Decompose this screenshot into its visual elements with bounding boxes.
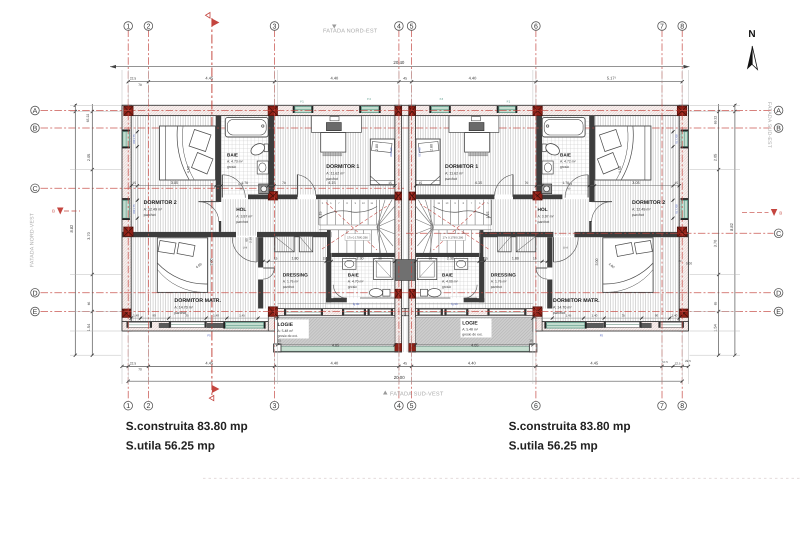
svg-text:4.15: 4.15 bbox=[475, 181, 482, 185]
svg-text:1.15: 1.15 bbox=[319, 212, 323, 219]
loggia floor hatch right unit bbox=[416, 318, 533, 348]
svg-text:DORMITOR 1: DORMITOR 1 bbox=[326, 164, 359, 170]
svg-text:DRESSING: DRESSING bbox=[283, 272, 308, 278]
loggia bottom edge left unit bbox=[275, 351, 402, 353]
room label logie right bbox=[461, 319, 492, 338]
svg-text:LOGIE: LOGIE bbox=[462, 321, 478, 327]
svg-text:1.80: 1.80 bbox=[292, 257, 299, 261]
svg-text:1.40: 1.40 bbox=[671, 313, 677, 317]
svg-text:parchet: parchet bbox=[445, 177, 457, 181]
svg-text:15: 15 bbox=[278, 339, 282, 343]
wall: baie jos south wall left bbox=[326, 298, 347, 302]
window F1 dormitor1 top right bbox=[499, 107, 516, 113]
svg-text:BAIE: BAIE bbox=[348, 272, 359, 277]
wall: party wall west band bbox=[395, 105, 402, 352]
floor: vestibul loggia left unit bbox=[326, 302, 395, 308]
svg-text:A: 1.76 m²: A: 1.76 m² bbox=[283, 279, 300, 283]
svg-text:E: E bbox=[33, 309, 38, 316]
svg-text:90: 90 bbox=[429, 257, 433, 261]
svg-text:DORMITOR 2: DORMITOR 2 bbox=[144, 200, 177, 206]
svg-text:65: 65 bbox=[714, 302, 718, 306]
room label logie left bbox=[278, 320, 309, 339]
svg-text:15: 15 bbox=[529, 339, 533, 343]
svg-text:22.5: 22.5 bbox=[685, 359, 691, 363]
svg-text:A: 14.70 m²: A: 14.70 m² bbox=[553, 305, 572, 309]
svg-text:FATADA NORD-VEST: FATADA NORD-VEST bbox=[30, 212, 36, 267]
column party-corridor left bbox=[395, 192, 402, 200]
door dressing left bbox=[263, 267, 274, 269]
column g3-E left bbox=[268, 307, 277, 317]
svg-text:gresie: gresie bbox=[348, 285, 357, 289]
svg-text:57.5: 57.5 bbox=[662, 360, 668, 364]
svg-text:3.00: 3.00 bbox=[595, 259, 599, 266]
bed dormitor matrimonial right bbox=[603, 238, 653, 293]
bed dormitor 2 left bbox=[160, 126, 216, 180]
svg-text:90: 90 bbox=[378, 257, 382, 261]
svg-text:7: 7 bbox=[660, 24, 664, 31]
svg-text:22: 22 bbox=[678, 259, 682, 263]
svg-text:U-4: U-4 bbox=[243, 246, 248, 250]
stair break line right bbox=[433, 207, 491, 219]
svg-text:gresie de ext.: gresie de ext. bbox=[278, 334, 298, 338]
svg-text:S.utila 56.25 mp: S.utila 56.25 mp bbox=[126, 439, 215, 453]
grid bubble 4 bbox=[395, 22, 404, 31]
svg-text:20.40: 20.40 bbox=[393, 60, 405, 65]
stair lower flight treads right bbox=[439, 230, 480, 253]
bed dormitor matrimonial left bbox=[157, 238, 207, 293]
svg-text:F4: F4 bbox=[367, 97, 371, 101]
stair winder fan right bbox=[425, 200, 433, 227]
loggia glazing sill strip left unit bbox=[278, 347, 395, 352]
loggia glazing sill strip right unit bbox=[416, 347, 533, 352]
stair stringer right left bbox=[379, 200, 381, 253]
window dormitor2 side lower left bbox=[123, 200, 130, 218]
svg-text:parchet: parchet bbox=[632, 213, 644, 217]
svg-text:A: 4.73 m²: A: 4.73 m² bbox=[227, 159, 244, 163]
svg-text:80/2.35: 80/2.35 bbox=[417, 147, 421, 157]
glazed door loggia right bbox=[489, 310, 524, 315]
svg-text:parchet: parchet bbox=[491, 285, 502, 289]
stair lower flight treads left bbox=[331, 230, 372, 253]
column g3-corridor left bbox=[268, 192, 277, 201]
svg-text:8: 8 bbox=[680, 24, 684, 31]
floor: baie jos left unit (tiles) bbox=[331, 257, 395, 298]
svg-text:parchet: parchet bbox=[553, 311, 565, 315]
svg-text:parchet: parchet bbox=[236, 220, 248, 224]
svg-text:2: 2 bbox=[146, 24, 150, 31]
floor: casa scarii right unit bbox=[416, 196, 488, 253]
loggia dim ticks above left unit bbox=[278, 303, 395, 305]
svg-text:BAIE: BAIE bbox=[442, 272, 453, 277]
interior dimension row lower rooms right bbox=[416, 260, 548, 262]
wardrobe dressing a left bbox=[275, 236, 295, 252]
stair break line left bbox=[320, 207, 378, 219]
grid axis horizontal line D bbox=[41, 292, 774, 294]
svg-text:1: 1 bbox=[126, 24, 130, 31]
stair mid landing lines right bbox=[431, 224, 492, 226]
window F1 dormitor1 top left bbox=[295, 107, 312, 113]
washing machine baie sus right bbox=[542, 184, 552, 194]
svg-text:gresie: gresie bbox=[227, 165, 236, 169]
wall: dormitor2/baie partition right bbox=[589, 116, 594, 202]
svg-text:A: 12.49 m²: A: 12.49 m² bbox=[144, 208, 163, 212]
svg-text:90: 90 bbox=[655, 313, 659, 317]
wall: dormitor2 south wall left bbox=[122, 232, 236, 237]
svg-text:parchet: parchet bbox=[538, 220, 550, 224]
wall: corridor wall segment b left bbox=[248, 195, 297, 200]
svg-text:DRESSING: DRESSING bbox=[491, 272, 516, 278]
svg-text:35: 35 bbox=[185, 313, 189, 317]
cabinet dormitor 1 right bbox=[449, 116, 499, 133]
svg-text:A: 12.49 m²: A: 12.49 m² bbox=[632, 208, 651, 212]
wall: dressing north wall left bbox=[257, 232, 331, 237]
svg-text:8.82: 8.82 bbox=[729, 222, 734, 231]
floor: dressing left unit (parquet) bbox=[263, 236, 326, 308]
svg-text:7: 7 bbox=[660, 403, 664, 410]
bathtub baie sus left bbox=[225, 117, 268, 137]
grid axis vertical line 5 bbox=[411, 30, 413, 402]
svg-text:6: 6 bbox=[534, 403, 538, 410]
wall: corridor wall segment c left bbox=[316, 195, 395, 200]
svg-text:22.5: 22.5 bbox=[130, 77, 136, 81]
bathtub baie sus right bbox=[542, 117, 585, 137]
wardrobe dressing b right bbox=[498, 236, 511, 252]
cabinet dormitor 1 left bbox=[312, 116, 362, 133]
column g3-A left bbox=[268, 106, 277, 115]
loggia corner post right unit bbox=[529, 344, 537, 352]
window dormitor2 side upper right bbox=[681, 132, 688, 147]
grid axis vertical line 8 bbox=[681, 30, 683, 402]
svg-text:FATADA SUD-VEST: FATADA SUD-VEST bbox=[390, 392, 444, 398]
loggia dimension right 4.05 bbox=[416, 344, 533, 346]
window loggia b right bbox=[419, 310, 441, 315]
glazed door loggia left bbox=[286, 310, 321, 315]
toilet baie sus left bbox=[264, 144, 268, 152]
wall: dressing west wall upper left bbox=[258, 237, 263, 267]
toilet baie jos right bbox=[420, 289, 427, 296]
dimension line bottom segments bbox=[122, 365, 688, 367]
loggia corner post left unit bbox=[274, 344, 282, 352]
svg-text:gresie de ext.: gresie de ext. bbox=[462, 332, 482, 336]
radiator sill a right bbox=[641, 323, 652, 328]
svg-text:2.05: 2.05 bbox=[714, 154, 718, 161]
shower baie jos right bbox=[417, 259, 437, 280]
wall: left exterior (north-west facade) bbox=[122, 105, 131, 331]
door baie sus left (into bathroom) bbox=[221, 175, 223, 198]
dimension line right inner bbox=[718, 104, 720, 356]
door dormitor 1 left bbox=[296, 175, 298, 197]
interior vertical dim line dormitor2 left bbox=[136, 117, 138, 232]
wall: corridor wall segment b right bbox=[513, 195, 562, 200]
bed dormitor 2 right bbox=[595, 126, 651, 180]
floor: hol left unit (parquet) bbox=[221, 199, 326, 236]
svg-text:A: 5.48 m²: A: 5.48 m² bbox=[462, 327, 479, 331]
column party-D right bbox=[409, 289, 416, 298]
extension lines top bbox=[121, 70, 123, 105]
loggia dimension left 4.05 bbox=[278, 344, 395, 346]
svg-text:N: N bbox=[748, 29, 755, 40]
grid axis vertical line 7 bbox=[661, 30, 663, 402]
grid bubble D bbox=[774, 289, 783, 298]
floor: casa scarii left unit bbox=[323, 196, 395, 253]
svg-text:8.82: 8.82 bbox=[69, 224, 74, 233]
extension lines right bbox=[690, 104, 741, 106]
svg-text:5.17¹: 5.17¹ bbox=[607, 76, 617, 81]
svg-text:U-4: U-4 bbox=[563, 246, 568, 250]
dimension line left outer bbox=[74, 104, 76, 356]
svg-text:C: C bbox=[32, 186, 37, 193]
wall: dressing west wall upper right bbox=[547, 237, 552, 267]
floor: dormitor 2 right unit (parquet) bbox=[595, 116, 680, 232]
floor: dormitor 1 right unit (parquet) bbox=[416, 116, 537, 195]
svg-text:A: 4.70 m²: A: 4.70 m² bbox=[348, 279, 365, 283]
svg-text:E: E bbox=[776, 309, 781, 316]
svg-text:1.40: 1.40 bbox=[591, 313, 597, 317]
grid bubble E bbox=[31, 307, 40, 316]
wall: dormitor2/baie partition left bbox=[216, 116, 221, 202]
grid axis horizontal line E bbox=[41, 311, 774, 313]
svg-text:B: B bbox=[52, 209, 55, 214]
door baie jos right bbox=[464, 285, 478, 299]
svg-text:U-3: U-3 bbox=[568, 182, 573, 186]
toilet baie jos left bbox=[383, 289, 390, 296]
facade label nord-est (top) bbox=[332, 25, 337, 29]
svg-text:FATADA SUD-EST: FATADA SUD-EST bbox=[766, 102, 772, 149]
washbasin baie sus left bbox=[257, 161, 268, 174]
column party-A right bbox=[409, 106, 416, 115]
svg-text:15: 15 bbox=[274, 257, 278, 261]
wall: loggia north wall right unit bbox=[405, 309, 542, 316]
svg-text:3.70: 3.70 bbox=[87, 232, 91, 239]
loggia floor hatch left unit bbox=[278, 318, 395, 348]
svg-text:HOL: HOL bbox=[236, 207, 246, 213]
wall: baie/dormitor1 partition right bbox=[536, 116, 542, 195]
svg-text:F1: F1 bbox=[300, 99, 304, 103]
svg-text:S.construita 83.80 mp: S.construita 83.80 mp bbox=[509, 419, 631, 433]
grid bubble 4 bbox=[395, 401, 404, 410]
window F4 dormitor1 top right bbox=[432, 107, 450, 113]
window loggia a left bbox=[344, 310, 364, 315]
wall: stair west wall left bbox=[327, 230, 331, 257]
loggia parapet west left unit bbox=[275, 318, 278, 353]
svg-text:gresie: gresie bbox=[442, 285, 451, 289]
stair upper flight treads left bbox=[319, 200, 376, 225]
svg-text:S.construita 83.80 mp: S.construita 83.80 mp bbox=[126, 419, 248, 433]
washbasin baie jos left bbox=[343, 259, 356, 270]
grid bubble 7 bbox=[658, 401, 667, 410]
svg-text:DORMITOR MATR.: DORMITOR MATR. bbox=[174, 298, 221, 304]
svg-text:15: 15 bbox=[419, 181, 423, 185]
column g1-E left bbox=[122, 309, 131, 317]
window loggia a right bbox=[446, 310, 466, 315]
column g1-C right bbox=[677, 227, 686, 236]
svg-text:A: 11.62 m²: A: 11.62 m² bbox=[445, 171, 464, 175]
grid axis horizontal line C right bbox=[406, 232, 774, 234]
svg-text:fg 90: fg 90 bbox=[353, 302, 360, 306]
svg-text:65 22: 65 22 bbox=[714, 116, 718, 125]
svg-text:5: 5 bbox=[410, 24, 414, 31]
svg-text:parchet: parchet bbox=[144, 213, 156, 217]
window dormitor matr c left bbox=[226, 323, 264, 329]
svg-text:DORMITOR 2: DORMITOR 2 bbox=[632, 200, 665, 206]
svg-text:U-3: U-3 bbox=[238, 182, 243, 186]
svg-text:4.45: 4.45 bbox=[205, 360, 214, 365]
svg-text:0.00: 0.00 bbox=[686, 262, 692, 266]
floor: dormitor 2 left unit (parquet) bbox=[131, 116, 216, 232]
grid bubble 6 bbox=[532, 401, 541, 410]
grid axis vertical line 3 bbox=[274, 30, 276, 402]
svg-text:80/1.75: 80/1.75 bbox=[132, 134, 136, 144]
svg-text:A: 5.48 m²: A: 5.48 m² bbox=[278, 329, 295, 333]
interior dimension row upper rooms right bbox=[416, 185, 680, 187]
svg-text:B: B bbox=[776, 126, 781, 133]
grid bubble 1 bbox=[124, 401, 133, 410]
grid bubble C bbox=[774, 229, 783, 238]
svg-text:90: 90 bbox=[152, 313, 156, 317]
wall: corridor wall segment c right bbox=[416, 195, 495, 200]
stair label left bbox=[345, 234, 370, 241]
svg-text:A: 14.70 m²: A: 14.70 m² bbox=[174, 305, 193, 309]
svg-text:15: 15 bbox=[132, 181, 136, 185]
svg-text:4.15: 4.15 bbox=[328, 181, 335, 185]
svg-text:80/1.75: 80/1.75 bbox=[675, 134, 679, 144]
grid bubble E bbox=[774, 307, 783, 316]
svg-text:70: 70 bbox=[282, 181, 286, 185]
svg-text:2.05: 2.05 bbox=[87, 154, 91, 161]
wall: baie jos north wall left bbox=[331, 253, 395, 257]
svg-text:D: D bbox=[776, 290, 781, 297]
svg-text:B: B bbox=[33, 126, 38, 133]
interior vertical dim line dormitor2 right bbox=[672, 117, 674, 232]
svg-text:1.45: 1.45 bbox=[565, 313, 571, 317]
washbasin baie sus right bbox=[542, 161, 553, 174]
floor: baie jos right unit (tiles) bbox=[416, 257, 480, 298]
svg-text:4.40: 4.40 bbox=[331, 76, 340, 81]
wall: baie jos north wall right bbox=[416, 253, 480, 257]
svg-text:A: 1.76 m²: A: 1.76 m² bbox=[491, 279, 508, 283]
floor: vestibul loggia right unit bbox=[416, 302, 485, 308]
svg-text:45: 45 bbox=[403, 77, 407, 81]
svg-text:4: 4 bbox=[397, 403, 401, 410]
svg-text:C: C bbox=[776, 231, 781, 238]
svg-text:80/1.75: 80/1.75 bbox=[675, 204, 679, 214]
window dormitor matr c right bbox=[547, 323, 585, 329]
column g3-A right bbox=[533, 106, 542, 115]
svg-text:2.30: 2.30 bbox=[447, 257, 454, 261]
party wall expansion joint lines bbox=[402, 116, 404, 352]
svg-text:S.utila 56.25 mp: S.utila 56.25 mp bbox=[509, 439, 598, 453]
shelf dormitor 1 left bbox=[330, 117, 339, 121]
door dormitor 2 right (leaf and swing arc) bbox=[592, 201, 612, 203]
svg-text:15: 15 bbox=[217, 181, 221, 185]
section marker A bottom bbox=[212, 385, 220, 393]
wall: bottom exterior right (south-west facade) bbox=[533, 322, 689, 332]
wall: dressing north wall right bbox=[479, 232, 553, 237]
column g1-C left bbox=[124, 227, 133, 236]
svg-text:1.40: 1.40 bbox=[133, 313, 139, 317]
svg-text:4.05: 4.05 bbox=[332, 343, 339, 347]
svg-text:D: D bbox=[32, 290, 37, 297]
svg-text:4.40: 4.40 bbox=[468, 360, 477, 365]
svg-text:4.45: 4.45 bbox=[205, 76, 214, 81]
grid axis vertical line 4 bbox=[398, 30, 400, 402]
grid axis vertical line 6 bbox=[535, 30, 537, 402]
floor: baie sus left unit (tiles) bbox=[221, 116, 268, 195]
svg-text:2.30: 2.30 bbox=[357, 257, 364, 261]
svg-text:A: 4.00 m²: A: 4.00 m² bbox=[442, 279, 459, 283]
svg-text:3: 3 bbox=[273, 403, 277, 410]
svg-text:35: 35 bbox=[622, 313, 626, 317]
wall: thin line under toilet left bbox=[360, 297, 395, 299]
grid bubble B bbox=[774, 124, 783, 133]
svg-text:2.80: 2.80 bbox=[375, 144, 379, 151]
wall: top exterior (north-east facade) bbox=[122, 105, 688, 115]
svg-text:DORMITOR MATR.: DORMITOR MATR. bbox=[553, 298, 600, 304]
svg-text:70: 70 bbox=[138, 368, 142, 372]
loggia parapet west right unit bbox=[533, 318, 536, 353]
interior dimension row upper rooms left bbox=[131, 185, 395, 187]
wall: dormitor2 south wall right bbox=[574, 232, 688, 237]
svg-text:20.00: 20.00 bbox=[394, 375, 406, 380]
svg-text:4.45: 4.45 bbox=[590, 360, 599, 365]
wall: stub g6 between E wall and bottom wall right bbox=[533, 316, 542, 331]
door dormitor 1 right bbox=[512, 175, 514, 197]
grid axis vertical line 1 bbox=[127, 30, 129, 402]
grid bubble B bbox=[31, 124, 40, 133]
svg-text:F5: F5 bbox=[600, 334, 604, 338]
svg-text:1.15: 1.15 bbox=[486, 212, 490, 219]
dimension line bottom overall 20.00 bbox=[128, 380, 682, 382]
svg-text:BAIE: BAIE bbox=[560, 153, 571, 158]
grid bubble 8 bbox=[678, 22, 687, 31]
svg-text:17x 0.178/0.286: 17x 0.178/0.286 bbox=[443, 235, 464, 239]
grid bubble 3 bbox=[270, 401, 279, 410]
svg-text:4: 4 bbox=[397, 24, 401, 31]
svg-text:15: 15 bbox=[590, 181, 594, 185]
wall: baie jos south wall right bbox=[464, 298, 485, 302]
floor: dormitor 1 left unit (parquet) bbox=[274, 116, 395, 195]
section line A-A vertical bbox=[211, 18, 213, 395]
wall: dressing east wall lower left bbox=[326, 257, 331, 302]
svg-text:3.05: 3.05 bbox=[632, 181, 639, 185]
radiator sill b right bbox=[586, 323, 604, 328]
svg-text:F5: F5 bbox=[207, 334, 211, 338]
window dormitor matr b left bbox=[171, 322, 205, 327]
shaft: dark technical shaft between bathrooms at party wall bbox=[396, 260, 415, 281]
svg-text:4.40: 4.40 bbox=[469, 76, 478, 81]
dimension line top segments bbox=[128, 81, 682, 83]
wall: bottom exterior left (south-west facade) bbox=[122, 322, 278, 332]
grid bubble A bbox=[774, 106, 783, 115]
svg-text:A: A bbox=[33, 108, 38, 115]
stair walk line red right bbox=[420, 204, 488, 249]
svg-text:DORMITOR 1: DORMITOR 1 bbox=[445, 164, 478, 170]
grid bubble C bbox=[31, 184, 40, 193]
wall: right exterior (south-east facade) bbox=[679, 105, 688, 331]
svg-text:22.5: 22.5 bbox=[130, 361, 136, 365]
svg-text:3.70: 3.70 bbox=[714, 240, 718, 247]
window dormitor matr a right bbox=[660, 322, 682, 327]
window dormitor matr b right bbox=[606, 322, 640, 327]
grid bubble 6 bbox=[532, 22, 541, 31]
svg-text:A: 4.72 m²: A: 4.72 m² bbox=[560, 159, 577, 163]
grid bubble D bbox=[31, 289, 40, 298]
svg-text:2.10: 2.10 bbox=[249, 237, 253, 243]
wall: dressing west wall lower left bbox=[258, 280, 263, 309]
wall: loggia north wall left unit bbox=[268, 309, 405, 316]
svg-text:gresie: gresie bbox=[560, 165, 569, 169]
svg-text:LOGIE: LOGIE bbox=[278, 322, 294, 328]
